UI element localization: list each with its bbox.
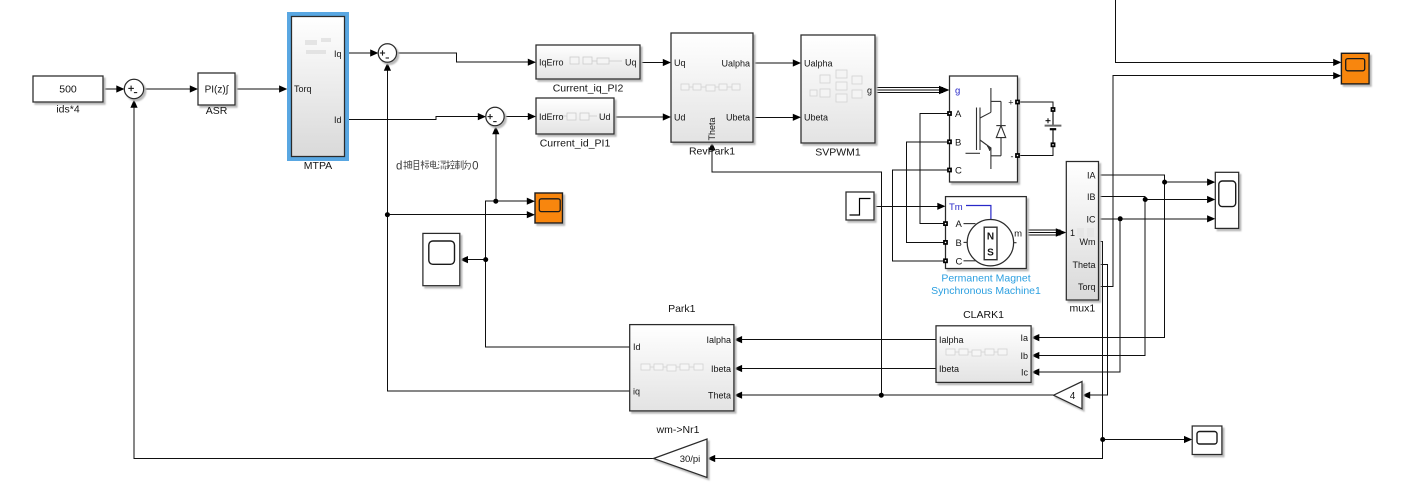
subsystem block Current_iq_PI2 (536, 45, 640, 95)
scope block scope5 white left (423, 233, 460, 285)
port square PMSM B (943, 240, 948, 245)
battery plus sign (1046, 118, 1051, 123)
svg-text:iq: iq (633, 386, 640, 396)
char mu (414, 160, 419, 169)
scope block scope2 right middle 3 inputs (1215, 172, 1238, 228)
svg-text:g: g (955, 86, 960, 97)
arrowhead into PMSM Tm (937, 203, 945, 210)
svg-text:Ialpha: Ialpha (706, 335, 731, 345)
char dian (431, 160, 438, 168)
svg-text:SVPWM1: SVPWM1 (815, 147, 861, 159)
svg-text:Ibeta: Ibeta (939, 364, 959, 374)
svg-text:IC: IC (1087, 214, 1097, 224)
arrowhead into scope1 input1 (1333, 59, 1341, 66)
svg-text:-: - (1011, 152, 1014, 162)
port square PMSM C (943, 258, 948, 263)
arrowhead into RevPark1 Ud (663, 113, 671, 120)
arrowhead into scope1 input2 (1333, 72, 1341, 79)
inverter block Universal Bridge (950, 76, 1018, 182)
svg-text:IdErro: IdErro (539, 112, 564, 122)
mux block mux1 (1066, 162, 1098, 315)
wire sum1 to ASR (144, 88, 193, 90)
junction node IC branch (1118, 216, 1123, 221)
svg-text:S: S (987, 248, 994, 259)
arrowhead into RevPark1 Uq (663, 59, 671, 66)
wire MTPA Id to sum3 (347, 117, 480, 120)
wire mux1 IB to CLARK1 Ib with branch to scope2 input2 (1037, 196, 1145, 355)
svg-text:Theta: Theta (708, 391, 731, 401)
arrowhead into scope3 input1 (527, 198, 535, 205)
svg-text:Ud: Ud (599, 112, 611, 122)
battery long plate (1045, 125, 1062, 127)
arrowhead into sum3 bottom (492, 126, 499, 134)
svg-text:B: B (955, 138, 961, 149)
svg-text:IqErro: IqErro (539, 58, 564, 68)
wire RevPark1 Ubeta to SVPWM1 Ubeta (753, 116, 795, 118)
arrowhead into Park1 Ialpha (734, 336, 742, 343)
wire Current_iq_PI2 Uq to RevPark1 Uq (640, 62, 665, 64)
junction node Id feedback to scope5 (483, 257, 488, 262)
subsystem block MTPA selected blue border (289, 14, 347, 172)
arrowhead into CLARK1 Ia (1031, 334, 1039, 341)
svg-text:Uq: Uq (625, 58, 637, 68)
wire Park1 Id feedback to sum3 with branches to scope3 and scope5 (486, 132, 630, 347)
svg-text:C: C (955, 166, 962, 177)
motor icon circle (967, 220, 1013, 266)
svg-text:Synchronous Machine1: Synchronous Machine1 (931, 285, 1041, 297)
wire mux1 Wm down to scope4 and gain 30/pi (713, 242, 1103, 459)
wire RevPark1 Ualpha to SVPWM1 Ualpha (753, 62, 795, 64)
wire mux1 Theta down to gain4 (1088, 265, 1108, 396)
subsystem block RevPark1 (671, 33, 753, 158)
junction node IB branch (1143, 197, 1148, 202)
svg-text:C: C (956, 256, 963, 267)
svg-text:Iq: Iq (334, 49, 342, 59)
wire gain4 output to Park1 Theta with branch to RevPark1 Theta (740, 394, 1054, 396)
svg-text:Ib: Ib (1020, 351, 1028, 361)
char zhi (455, 160, 463, 169)
svg-text:Theta: Theta (1072, 260, 1095, 270)
svg-text:0: 0 (472, 161, 478, 173)
svg-text:Wm: Wm (1080, 237, 1096, 247)
bus wire PMSM m to mux1 (1026, 230, 1060, 235)
PMSM block Permanent Magnet Synchronous Machine1 (946, 197, 1027, 269)
wire CLARK1 Ialpha to Park1 Ialpha (740, 339, 936, 341)
wire ASR to MTPA Torq (235, 88, 283, 90)
IGBT and diode icon (966, 88, 1006, 169)
wire inverter plus to DC source plus (1018, 102, 1054, 117)
wire sum2 to Current_iq_PI2 IqErro (397, 53, 531, 62)
svg-text:RevPark1: RevPark1 (689, 146, 735, 158)
wire gain 30/pi output to sum1 feedback (134, 105, 656, 459)
svg-text:Theta: Theta (707, 117, 717, 140)
svg-text:Ubeta: Ubeta (726, 113, 750, 123)
DC voltage source battery (1045, 107, 1062, 147)
scope block scope3 orange middle (535, 193, 563, 223)
svg-text:Ubeta: Ubeta (804, 113, 828, 123)
arrowhead into sum1 bottom (130, 100, 137, 108)
magnet rect N S (984, 227, 997, 260)
wire mux1 Torq up to scope1 input2 (1099, 76, 1336, 287)
wire DC source minus to inverter minus (1018, 131, 1054, 156)
svg-text:IB: IB (1087, 192, 1096, 202)
svg-text:A: A (955, 109, 962, 120)
char wei (464, 160, 471, 169)
svg-text:Current_id_PI1: Current_id_PI1 (540, 138, 611, 150)
sum block sum2 (378, 44, 396, 62)
svg-text:Id: Id (334, 115, 342, 125)
arrowhead into RevPark1 Theta bottom (708, 142, 715, 150)
arrowhead into scope4 (1184, 436, 1192, 443)
svg-text:g: g (867, 85, 872, 95)
port square DC minus (1051, 142, 1056, 147)
svg-text:Ud: Ud (674, 112, 686, 122)
port square DC plus (1051, 107, 1056, 112)
wire constant ids*4 to sum1 (103, 88, 118, 90)
wire mux1 IA to CLARK1 Ia with branch to scope2 input1 (1037, 175, 1165, 338)
arrowhead into CLARK1 Ic (1031, 369, 1039, 376)
wire from top edge to scope1 input1 (1116, 0, 1336, 62)
arrowhead into Park1 Theta (734, 392, 742, 399)
port square inverter A (947, 111, 952, 116)
arrowhead into scope2 input1 (1207, 179, 1215, 186)
svg-text:Ualpha: Ualpha (804, 58, 833, 68)
wire inverter A to PMSM A (920, 114, 949, 224)
svg-text:PI(z)∫: PI(z)∫ (205, 85, 230, 96)
arrowhead into CLARK1 Ib (1031, 352, 1039, 359)
svg-text:N: N (987, 232, 994, 243)
arrowhead into IqErro (528, 59, 536, 66)
bus wire SVPWM1 g to inverter g (875, 88, 943, 93)
wire inverter C to PMSM C (893, 170, 950, 261)
svg-text:ids*4: ids*4 (56, 104, 80, 116)
subsystem block Park1 (630, 303, 734, 411)
wire Park1 iq feedback to sum2 with branch to scope3 input2 (387, 68, 629, 391)
svg-text:d: d (396, 161, 402, 173)
svg-text:Park1: Park1 (668, 303, 696, 315)
wire Current_id_PI1 Ud to RevPark1 Ud (614, 116, 665, 118)
svg-text:B: B (956, 238, 962, 249)
wire mux1 IC to CLARK1 Ic with branch to scope2 input3 (1037, 219, 1120, 372)
arrowhead into SVPWM1 Ubeta (793, 114, 801, 121)
char biao (421, 160, 430, 169)
svg-text:Current_iq_PI2: Current_iq_PI2 (553, 83, 624, 95)
wire step Tm to PMSM Tm (874, 205, 940, 207)
scope block scope1 orange top right (1341, 53, 1369, 84)
svg-text:500: 500 (59, 84, 77, 96)
svg-text:IA: IA (1087, 171, 1096, 181)
gain block 4 (1054, 382, 1083, 409)
svg-text:30/pi: 30/pi (680, 454, 701, 465)
arrowhead into scope5 (460, 256, 468, 263)
constant block ids*4 value 500 (33, 76, 103, 116)
svg-text:Torq: Torq (294, 84, 312, 94)
char liu (438, 161, 446, 169)
svg-text:ASR: ASR (206, 105, 228, 117)
arrowhead into Park1 Ibeta (734, 365, 742, 372)
char zhou (404, 160, 412, 169)
wire inverter B to PMSM B (907, 142, 950, 243)
sum block sum1 (124, 79, 143, 98)
subsystem block Current_id_PI1 (536, 98, 614, 150)
step block (846, 192, 874, 220)
svg-text:Permanent Magnet: Permanent Magnet (941, 273, 1030, 285)
svg-text:1: 1 (1070, 228, 1075, 238)
junction node Wm to scope4 (1100, 437, 1105, 442)
arrowhead into IdErro (528, 113, 536, 120)
arrowhead into SVPWM1 Ualpha (793, 59, 801, 66)
wire CLARK1 Ibeta to Park1 Ibeta (740, 368, 936, 370)
svg-text:Id: Id (633, 342, 641, 352)
junction node Id feedback to scope3 (493, 199, 498, 204)
svg-text:mux1: mux1 (1070, 303, 1096, 315)
svg-text:4: 4 (1070, 391, 1076, 402)
svg-text:wm->Nr1: wm->Nr1 (656, 424, 700, 436)
svg-text:A: A (956, 219, 963, 230)
svg-text:m: m (1014, 228, 1022, 239)
port square inverter B (947, 139, 952, 144)
battery short plate (1050, 128, 1056, 130)
svg-text:Ic: Ic (1021, 367, 1029, 377)
arrowhead into ASR (190, 85, 198, 92)
arrowhead into gain4 (1082, 392, 1090, 399)
port square inverter C (947, 168, 952, 173)
arrowhead into scope2 input3 (1207, 215, 1215, 222)
junction node Theta to RevPark1 (879, 393, 884, 398)
subsystem block CLARK1 (936, 309, 1031, 382)
port square inverter minus (1015, 153, 1020, 158)
scope block scope4 bottom right (1192, 426, 1222, 455)
arrowhead bus into inverter g (939, 86, 950, 94)
sum block sum3 (486, 107, 504, 125)
svg-text:Ibeta: Ibeta (711, 364, 731, 374)
svg-text:Tm: Tm (949, 202, 963, 213)
junction node iq feedback to scope3 (385, 212, 390, 217)
gain block 30/pi wm to Nr1 (654, 424, 708, 478)
char kong (447, 160, 455, 169)
arrowhead into sum2 bottom (384, 63, 391, 71)
port square inverter plus (1015, 100, 1020, 105)
subsystem block SVPWM1 (801, 35, 875, 159)
svg-text:Torq: Torq (1078, 282, 1096, 292)
port square PMSM A (943, 221, 948, 226)
arrowhead into sum3 (478, 113, 486, 120)
arrowhead into sum1 (116, 85, 124, 92)
arrowhead into MTPA Torq (279, 85, 287, 92)
svg-text:Uq: Uq (674, 58, 686, 68)
arrowhead into sum2 (370, 49, 378, 56)
junction node IA branch (1162, 180, 1167, 185)
arrowhead into scope2 input2 (1207, 196, 1215, 203)
arrowhead into gain 30/pi (707, 455, 715, 462)
svg-text:CLARK1: CLARK1 (963, 309, 1004, 321)
annotation text d axis target current control is 0 (396, 160, 479, 173)
svg-text:+: + (1008, 98, 1013, 108)
svg-text:Ia: Ia (1020, 333, 1028, 343)
arrowhead into scope3 input2 (527, 211, 535, 218)
svg-text:Ualpha: Ualpha (721, 58, 750, 68)
wire MTPA Iq to sum2 (347, 52, 372, 54)
svg-text:Ialpha: Ialpha (939, 335, 964, 345)
arrowhead bus into mux1 (1056, 228, 1067, 236)
svg-text:MTPA: MTPA (304, 160, 332, 172)
wire sum3 to Current_id_PI1 IdErro (504, 116, 530, 118)
PID controller block ASR (198, 73, 235, 117)
